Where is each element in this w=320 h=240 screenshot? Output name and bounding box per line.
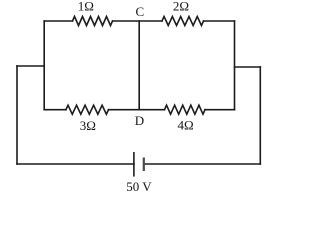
- wire bottom-right segment: [144, 163, 260, 165]
- wire inner-left vertical: [43, 21, 45, 110]
- resistor R2 2ohm: [162, 17, 204, 26]
- wire bridge vertical C to D: [138, 21, 140, 110]
- resistor R4 4ohm: [165, 105, 206, 114]
- wire outer-right vertical: [259, 67, 261, 164]
- svg-text:3Ω: 3Ω: [80, 118, 96, 133]
- wire right stub: [235, 66, 261, 68]
- wire top-middle segment through node C: [113, 20, 163, 22]
- wire inner-right vertical: [234, 21, 236, 110]
- svg-text:C: C: [135, 4, 144, 19]
- svg-text:4Ω: 4Ω: [178, 118, 194, 133]
- wire bottom-left segment: [17, 163, 134, 165]
- wire outer-left vertical: [16, 66, 18, 164]
- svg-text:50 V: 50 V: [126, 179, 152, 194]
- battery short plate: [143, 158, 145, 172]
- wire left stub: [17, 65, 44, 67]
- wire top-right segment: [204, 20, 235, 22]
- battery long plate: [133, 152, 135, 177]
- wire middle-left segment: [44, 109, 66, 111]
- wire top-left segment: [44, 20, 72, 22]
- resistor R1 1ohm: [73, 17, 113, 26]
- svg-text:2Ω: 2Ω: [173, 0, 189, 13]
- wire middle segment through node D: [109, 109, 165, 111]
- wire middle-right segment: [205, 109, 235, 111]
- svg-text:1Ω: 1Ω: [78, 0, 94, 13]
- svg-text:D: D: [135, 113, 144, 128]
- resistor R3 3ohm: [66, 105, 109, 114]
